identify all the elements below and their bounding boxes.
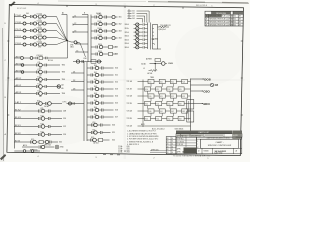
wire stub-C5 bbox=[75, 50, 88, 52]
svg-text:103: 103 bbox=[132, 16, 135, 18]
node J1 bbox=[62, 12, 72, 42]
svg-text:64: 64 bbox=[172, 149, 174, 151]
svg-text:K15: K15 bbox=[38, 90, 41, 92]
lamp DS5 row bbox=[14, 149, 40, 152]
svg-text:K40: K40 bbox=[94, 65, 97, 67]
title block right section bbox=[197, 137, 242, 154]
wire bus-B bbox=[84, 62, 87, 141]
svg-text:DS11: DS11 bbox=[98, 21, 102, 23]
svg-text:SPECIFIC CONTROLLER: SPECIFIC CONTROLLER bbox=[208, 145, 232, 147]
relay K4 row bbox=[14, 35, 67, 42]
svg-text:K52: K52 bbox=[168, 118, 171, 120]
relay coil K23 row bbox=[14, 123, 66, 128]
svg-text:112: 112 bbox=[63, 126, 66, 128]
wire stub-C1 bbox=[73, 15, 88, 18]
wire grid-left-rail bbox=[142, 80, 144, 128]
svg-text:7 6 1 0 4 2 . S K 6 4 2 8 1: 7 6 1 0 4 2 . S K 6 4 2 8 1 1 . R E V A … bbox=[173, 155, 210, 158]
svg-text:561: 561 bbox=[234, 19, 237, 21]
drawing number row bbox=[197, 148, 242, 154]
svg-text:T21 2B: T21 2B bbox=[127, 89, 132, 91]
svg-text:311: 311 bbox=[115, 75, 118, 77]
svg-text:K30: K30 bbox=[84, 58, 87, 60]
svg-text:L5: L5 bbox=[143, 68, 145, 70]
svg-text:C8: C8 bbox=[215, 83, 219, 87]
lamp DS13 row bbox=[91, 35, 122, 40]
svg-text:TB6: TB6 bbox=[62, 93, 65, 95]
svg-text:504: 504 bbox=[39, 74, 42, 76]
relay K3 row bbox=[14, 28, 67, 41]
svg-text:312: 312 bbox=[115, 82, 118, 84]
svg-text:J4: J4 bbox=[128, 17, 130, 19]
svg-text:W31: W31 bbox=[127, 148, 130, 150]
svg-text:320: 320 bbox=[112, 125, 115, 127]
connector P2-4 row bbox=[125, 34, 148, 37]
wire border-frame bbox=[4, 3, 243, 160]
relay contact K43 row bbox=[87, 86, 118, 91]
svg-text:K13: K13 bbox=[38, 76, 41, 78]
switch S2 row bbox=[127, 87, 191, 91]
svg-text:1. ALL RESISTORS ARE 1/2 W 5: 1. ALL RESISTORS ARE 1/2 W 5 PCT bbox=[127, 130, 156, 133]
svg-text:CR9 1N21: CR9 1N21 bbox=[44, 144, 51, 146]
svg-text:W30: W30 bbox=[127, 146, 130, 148]
svg-text:K32: K32 bbox=[168, 103, 171, 105]
svg-text:DS14: DS14 bbox=[98, 44, 102, 46]
resistor R61 bbox=[129, 64, 157, 80]
relay coil K10 row bbox=[14, 41, 67, 63]
svg-text:K11: K11 bbox=[38, 62, 41, 64]
svg-text:306: 306 bbox=[115, 54, 118, 56]
wire stub-D3 bbox=[71, 88, 84, 90]
svg-text:304: 304 bbox=[119, 38, 122, 40]
svg-text:314: 314 bbox=[115, 96, 118, 98]
svg-text:K11: K11 bbox=[157, 89, 160, 91]
svg-text:DS15: DS15 bbox=[98, 51, 102, 53]
relay coil K24 row bbox=[14, 131, 66, 136]
terminal E1 row bbox=[22, 144, 64, 151]
parts list header row bbox=[176, 134, 242, 140]
relay K1 row bbox=[14, 14, 67, 41]
wire label-504A2 bbox=[96, 12, 101, 15]
svg-text:R1 100: R1 100 bbox=[48, 60, 53, 62]
svg-text:K44: K44 bbox=[94, 93, 97, 95]
svg-text:P1 A1: P1 A1 bbox=[16, 14, 22, 17]
wire grid-bottom-row bbox=[127, 124, 191, 128]
wire grid-vlink bbox=[151, 113, 174, 116]
svg-text:303: 303 bbox=[119, 31, 122, 33]
svg-text:94580: 94580 bbox=[204, 151, 209, 153]
relay contact K46 row bbox=[87, 107, 118, 112]
diode CR20 label bbox=[175, 128, 184, 130]
svg-text:K41: K41 bbox=[160, 111, 163, 113]
relay K20 long row bbox=[14, 100, 84, 108]
connector P2-2 row bbox=[125, 27, 148, 30]
svg-text:C5: C5 bbox=[76, 50, 78, 52]
title block left column bbox=[166, 137, 176, 154]
relay contact K51 row bbox=[87, 130, 115, 135]
svg-text:K03: K03 bbox=[182, 81, 185, 83]
svg-text:301: 301 bbox=[119, 17, 122, 19]
svg-text:C1: C1 bbox=[74, 15, 76, 17]
relay coil K15 row bbox=[14, 90, 65, 98]
svg-text:101: 101 bbox=[132, 11, 135, 13]
svg-text:NO 67-1042: NO 67-1042 bbox=[17, 8, 26, 10]
title text box bbox=[200, 139, 238, 148]
svg-text:DS10: DS10 bbox=[98, 14, 102, 16]
svg-text:K31: K31 bbox=[157, 103, 160, 105]
svg-text:TB3: TB3 bbox=[62, 72, 65, 74]
svg-text:305: 305 bbox=[115, 47, 118, 49]
svg-text:P1 C1: P1 C1 bbox=[16, 29, 22, 31]
wire footer-text bbox=[103, 155, 210, 158]
terminal TB10 bbox=[191, 77, 211, 81]
relay contact K44 row bbox=[87, 93, 118, 98]
resistor R60 bbox=[158, 24, 171, 31]
switch S5 row bbox=[127, 109, 191, 113]
svg-text:K46: K46 bbox=[94, 107, 97, 109]
svg-text:64: 64 bbox=[172, 144, 174, 146]
svg-text:C3: C3 bbox=[74, 30, 76, 32]
svg-text:K30: K30 bbox=[145, 103, 148, 105]
wire notes bbox=[127, 130, 160, 147]
svg-text:K41: K41 bbox=[94, 72, 97, 74]
svg-text:CR1: CR1 bbox=[38, 19, 41, 21]
relay coil K21 row bbox=[14, 108, 66, 113]
svg-text:K12: K12 bbox=[38, 69, 41, 71]
relay contact K40 row bbox=[87, 65, 118, 70]
svg-text:108: 108 bbox=[63, 111, 66, 113]
svg-text:K12: K12 bbox=[168, 89, 171, 91]
svg-text:OO8: OO8 bbox=[204, 77, 211, 81]
svg-text:CHART -: CHART - bbox=[215, 141, 223, 144]
svg-text:316: 316 bbox=[115, 110, 118, 112]
svg-text:4. FOR REF DWGS SEE 67-1042-1: 4. FOR REF DWGS SEE 67-1042-1 SH 2 bbox=[127, 139, 158, 141]
svg-text:K43: K43 bbox=[94, 86, 97, 88]
svg-text:K33: K33 bbox=[179, 103, 182, 105]
svg-text:561: 561 bbox=[234, 24, 237, 26]
svg-text:CR4: CR4 bbox=[38, 40, 41, 42]
svg-text:561: 561 bbox=[234, 16, 237, 18]
relay coil K12 row bbox=[14, 69, 65, 77]
svg-text:DS12: DS12 bbox=[98, 28, 102, 30]
svg-text:3: 3 bbox=[154, 44, 155, 46]
wire bus-C bbox=[148, 23, 151, 50]
svg-text:K25: K25 bbox=[31, 139, 34, 141]
svg-text:5. WIRING PER MIL-W-5088 CL B: 5. WIRING PER MIL-W-5088 CL B bbox=[127, 141, 154, 143]
wire grid-vlink bbox=[151, 84, 174, 87]
svg-text:TB2: TB2 bbox=[62, 65, 65, 67]
relay contact K50 row bbox=[87, 122, 115, 127]
wire stub-D2 bbox=[71, 80, 84, 82]
svg-text:321: 321 bbox=[112, 132, 115, 134]
svg-text:K02: K02 bbox=[171, 81, 174, 83]
title block mid column bbox=[176, 137, 197, 154]
switch S3 row bbox=[127, 94, 191, 98]
terminal strip TB3 bbox=[153, 25, 162, 50]
svg-text:BL21: BL21 bbox=[141, 124, 145, 126]
svg-text:64: 64 bbox=[172, 146, 174, 148]
svg-text:322: 322 bbox=[112, 140, 115, 142]
lamp DS15 row bbox=[91, 51, 118, 56]
svg-text:Y: Y bbox=[197, 144, 198, 146]
relay coil K13 row bbox=[14, 76, 65, 84]
wire right-rail bbox=[190, 79, 192, 134]
svg-text:SH 1: SH 1 bbox=[233, 137, 236, 139]
svg-text:P1 E1: P1 E1 bbox=[16, 43, 22, 45]
svg-text:J1: J1 bbox=[128, 10, 130, 12]
svg-text:K21: K21 bbox=[160, 96, 163, 98]
svg-text:K51: K51 bbox=[93, 130, 96, 132]
svg-text:T22 2B: T22 2B bbox=[127, 103, 132, 105]
parts list header bbox=[176, 131, 242, 135]
terminal TB11 bbox=[191, 83, 219, 87]
svg-text:K40: K40 bbox=[149, 111, 152, 113]
svg-text:64-2811: 64-2811 bbox=[233, 135, 238, 137]
svg-text:K20: K20 bbox=[149, 96, 152, 98]
relay K30 bbox=[73, 58, 102, 63]
svg-text:K00: K00 bbox=[149, 81, 152, 83]
svg-text:T23 2B: T23 2B bbox=[127, 118, 132, 120]
svg-text:K10 504: K10 504 bbox=[37, 55, 43, 57]
svg-text:114: 114 bbox=[63, 134, 66, 136]
wire bus-A bbox=[82, 13, 91, 62]
svg-text:9OO: 9OO bbox=[203, 102, 210, 106]
svg-text:K42: K42 bbox=[94, 79, 97, 81]
svg-text:CR5: CR5 bbox=[38, 47, 41, 49]
svg-text:C4: C4 bbox=[76, 42, 78, 44]
svg-text:104: 104 bbox=[132, 18, 135, 20]
diode CR6 bbox=[70, 41, 86, 57]
svg-text:K21: K21 bbox=[41, 108, 44, 110]
relay contact K47 row bbox=[87, 114, 118, 119]
svg-text:W32: W32 bbox=[127, 150, 130, 152]
svg-text:64: 64 bbox=[172, 152, 174, 154]
svg-text:317: 317 bbox=[115, 117, 118, 119]
svg-text:CK J ROSS: CK J ROSS bbox=[177, 141, 184, 143]
svg-text:102: 102 bbox=[132, 13, 135, 15]
wire stub-C4 bbox=[75, 42, 88, 44]
svg-text:3. K1 THRU K6 SHOWN DE-ENERGI: 3. K1 THRU K6 SHOWN DE-ENERGIZED bbox=[127, 136, 160, 138]
svg-text:K47: K47 bbox=[94, 114, 97, 116]
wire grid-vlink bbox=[151, 98, 174, 101]
svg-text:K13: K13 bbox=[179, 89, 182, 91]
switch S1 row bbox=[127, 79, 191, 83]
svg-text:110: 110 bbox=[63, 118, 66, 120]
svg-text:64: 64 bbox=[172, 141, 174, 143]
relay K25 row bbox=[14, 139, 62, 147]
svg-text:J2: J2 bbox=[128, 12, 130, 14]
wire bl21-label bbox=[152, 129, 165, 131]
revision table bbox=[205, 11, 243, 26]
wire grid-vlink bbox=[148, 106, 171, 109]
connector P2-3 row bbox=[125, 30, 148, 33]
svg-text:1N21: 1N21 bbox=[70, 47, 74, 49]
wire left-rail bbox=[13, 14, 15, 149]
relay coil K11 row bbox=[14, 62, 65, 70]
svg-text:K01: K01 bbox=[160, 81, 163, 83]
svg-text:D3: D3 bbox=[73, 88, 75, 90]
svg-text:TRML: TRML bbox=[150, 77, 154, 79]
svg-text:O3O: O3O bbox=[203, 89, 210, 93]
wire sig-stubs bbox=[150, 148, 166, 152]
wire bundle-top bbox=[128, 10, 150, 23]
svg-text:315: 315 bbox=[115, 103, 118, 105]
svg-text:SK 64-2811: SK 64-2811 bbox=[215, 150, 227, 153]
svg-text:64: 64 bbox=[172, 138, 174, 140]
terminal TB13 bbox=[191, 102, 211, 106]
svg-text:S: S bbox=[197, 141, 198, 143]
wire spare-stub bbox=[151, 38, 159, 41]
svg-text:K23: K23 bbox=[182, 96, 185, 98]
svg-text:K24: K24 bbox=[41, 131, 44, 133]
svg-text:P1 B1: P1 B1 bbox=[16, 22, 22, 24]
svg-text:305: 305 bbox=[35, 149, 38, 151]
svg-text:K22: K22 bbox=[171, 96, 174, 98]
relay K2 row bbox=[14, 21, 67, 41]
switch S4 row bbox=[127, 101, 191, 105]
switch S6 row bbox=[127, 116, 191, 120]
lamp DS11 row bbox=[91, 21, 122, 26]
relay contact K42 row bbox=[87, 79, 118, 84]
svg-text:K43: K43 bbox=[182, 111, 185, 113]
wire grid-vlink bbox=[148, 91, 171, 94]
svg-text:K10: K10 bbox=[145, 89, 148, 91]
wire stub-C3 bbox=[73, 30, 88, 33]
svg-text:CR6: CR6 bbox=[70, 44, 73, 46]
relay coil K22 row bbox=[14, 115, 66, 120]
svg-text:J3: J3 bbox=[128, 15, 130, 17]
svg-text:310: 310 bbox=[115, 68, 118, 70]
svg-text:B: B bbox=[84, 13, 85, 15]
relay K60 bbox=[141, 58, 173, 66]
svg-text:K50: K50 bbox=[145, 118, 148, 120]
wire wire-list bbox=[118, 145, 130, 153]
svg-text:M: M bbox=[197, 147, 198, 149]
svg-text:CR3: CR3 bbox=[38, 33, 41, 35]
svg-text:P1 D1: P1 D1 bbox=[16, 36, 22, 38]
relay contact K41 row bbox=[87, 72, 118, 77]
svg-text:K45: K45 bbox=[94, 100, 97, 102]
relay K5 row bbox=[14, 41, 67, 49]
wire stub-C2 bbox=[73, 23, 88, 26]
lamp DS12 row bbox=[91, 28, 122, 33]
svg-text:D2: D2 bbox=[73, 80, 75, 82]
connector P2-6 row bbox=[125, 42, 148, 45]
svg-text:K22: K22 bbox=[41, 115, 44, 117]
svg-text:K42: K42 bbox=[171, 111, 174, 113]
svg-text:K53: K53 bbox=[179, 118, 182, 120]
connector P2-7 row bbox=[125, 46, 148, 49]
svg-text:504: 504 bbox=[39, 96, 42, 98]
relay coil K14 row bbox=[14, 83, 63, 91]
svg-text:D1: D1 bbox=[73, 71, 75, 73]
svg-text:CR2: CR2 bbox=[38, 26, 41, 28]
svg-text:DS13: DS13 bbox=[98, 35, 102, 37]
svg-text:K23: K23 bbox=[41, 123, 44, 125]
svg-text:313: 313 bbox=[115, 89, 118, 91]
svg-text:302: 302 bbox=[119, 24, 122, 26]
svg-text:K50: K50 bbox=[93, 122, 96, 124]
lamp DS10 row bbox=[91, 14, 122, 19]
svg-text:K51: K51 bbox=[157, 118, 160, 120]
relay contact K52 row bbox=[87, 137, 115, 145]
svg-text:2. CAPACITANCE VALUES IN UF P: 2. CAPACITANCE VALUES IN UF PER bbox=[127, 132, 157, 135]
connector P2-5 row bbox=[125, 38, 148, 41]
svg-text:W33: W33 bbox=[127, 152, 130, 154]
wire stub-D1 bbox=[71, 71, 84, 73]
terminal block TB14 bbox=[187, 100, 194, 123]
svg-text:K20: K20 bbox=[37, 100, 40, 102]
terminal TB12 bbox=[191, 89, 211, 93]
svg-text:TB4: TB4 bbox=[62, 79, 65, 81]
wire label-504 bbox=[26, 13, 29, 15]
relay contact K45 row bbox=[87, 100, 118, 105]
svg-text:6. SEE NOTE 4: 6. SEE NOTE 4 bbox=[127, 144, 139, 146]
svg-text:561: 561 bbox=[234, 21, 237, 23]
svg-text:CR20 1N645: CR20 1N645 bbox=[175, 128, 184, 130]
svg-text:K14: K14 bbox=[38, 83, 41, 85]
svg-text:C2: C2 bbox=[74, 23, 76, 25]
svg-text:302: 302 bbox=[59, 142, 62, 144]
svg-text:DS M LEE: DS M LEE bbox=[177, 144, 184, 146]
svg-text:K52: K52 bbox=[91, 137, 94, 139]
lamp DS14 row bbox=[91, 44, 118, 49]
connector P2-1 row bbox=[125, 23, 148, 26]
svg-text:504: 504 bbox=[26, 13, 29, 15]
